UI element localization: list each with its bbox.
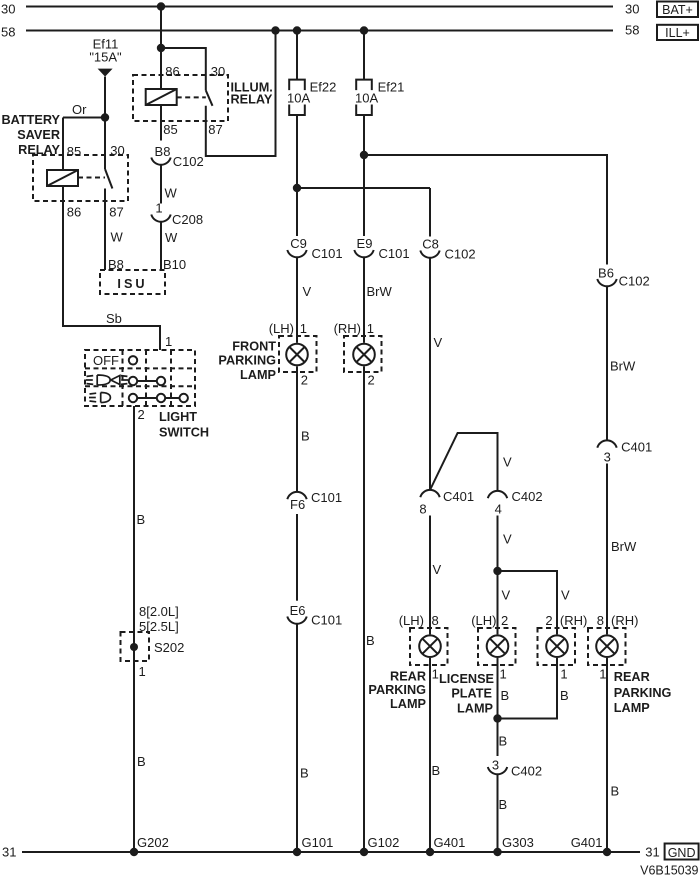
svg-text:V: V (503, 532, 512, 547)
svg-text:B: B (137, 512, 146, 527)
svg-text:1: 1 (300, 321, 307, 336)
svg-text:30: 30 (110, 143, 124, 158)
switch contacts row 1 (129, 356, 137, 364)
svg-text:SAVER: SAVER (17, 128, 60, 142)
svg-text:LAMP: LAMP (390, 697, 426, 711)
svg-text:85: 85 (67, 144, 81, 159)
connector C102 C8 (420, 247, 475, 262)
wire B8 to C208 (160, 165, 162, 204)
label V wire (303, 284, 312, 299)
wire bus30 to illum coil 86 (160, 7, 162, 90)
svg-text:2: 2 (301, 372, 308, 387)
svg-text:10A: 10A (355, 91, 378, 106)
svg-text:1: 1 (500, 667, 507, 682)
connector C402 pin 3 (488, 763, 542, 778)
svg-text:C101: C101 (312, 246, 343, 261)
node 30 label right (625, 2, 639, 17)
svg-text:ILL+: ILL+ (665, 26, 690, 40)
wire illum pin 87 to bus 58 (206, 31, 276, 157)
wire bus 30 BAT+ (26, 6, 613, 8)
lamp FRONT PARKING LAMP LH (279, 336, 317, 372)
pin 1 S202 (139, 664, 146, 679)
pin 2 front RH (368, 372, 375, 387)
svg-text:(RH): (RH) (611, 613, 638, 628)
svg-text:C102: C102 (173, 154, 204, 169)
svg-text:B8: B8 (155, 144, 171, 159)
svg-text:G303: G303 (502, 835, 534, 850)
svg-text:5[2.5L]: 5[2.5L] (139, 619, 179, 634)
wire illum coil 85 down (160, 106, 162, 141)
wire branch to C8 (297, 187, 430, 189)
label V wire (503, 532, 512, 547)
svg-text:1: 1 (367, 321, 374, 336)
svg-text:(RH): (RH) (560, 613, 587, 628)
svg-text:FRONT: FRONT (232, 340, 276, 354)
pin B6 label (598, 265, 614, 280)
svg-text:30: 30 (625, 2, 639, 17)
node 30 label left (1, 2, 15, 17)
svg-text:86: 86 (67, 205, 81, 220)
pin E6 label (290, 603, 306, 618)
svg-text:B: B (611, 784, 620, 799)
icon headlamp symbol (86, 375, 128, 385)
lamp LICENSE PLATE LAMP RH (538, 628, 576, 665)
label (LH) pin 8 (399, 613, 439, 628)
ground G101 (293, 835, 334, 856)
wire Ef11 to relay pin 30 (104, 77, 106, 169)
ground G401 right (571, 835, 612, 856)
label V wire (433, 562, 442, 577)
svg-text:C208: C208 (172, 212, 203, 227)
relay switch blade illum (206, 90, 213, 105)
node junction bus58 pin87 riser (271, 26, 279, 34)
pin 86 battery saver (67, 205, 81, 220)
splice S202 (121, 632, 185, 661)
fuse Ef11 15A (89, 36, 122, 76)
pin 1 license LH (500, 667, 507, 682)
svg-text:BAT+: BAT+ (662, 3, 693, 17)
svg-text:OFF: OFF (93, 353, 119, 368)
svg-text:B: B (499, 797, 508, 812)
wire lamp RH to G102, B (363, 366, 365, 852)
label REAR PARKING LAMP left (368, 670, 426, 711)
svg-text:V: V (503, 455, 512, 470)
svg-text:C102: C102 (619, 274, 650, 289)
svg-text:B: B (499, 734, 508, 749)
node junction license split (493, 567, 501, 575)
pin E9 label (357, 236, 373, 251)
svg-text:1: 1 (165, 334, 172, 349)
lamp LICENSE PLATE LAMP LH (478, 628, 516, 665)
svg-text:G401: G401 (571, 835, 603, 850)
svg-text:SWITCH: SWITCH (159, 426, 209, 440)
wire 8 C401 to rear lamp LH, V (429, 516, 431, 635)
svg-text:1: 1 (139, 664, 146, 679)
wire E9 to lamp, BrW (363, 257, 365, 343)
svg-text:BrW: BrW (611, 539, 637, 554)
connector C102 B6 (597, 274, 649, 289)
svg-text:2: 2 (368, 372, 375, 387)
svg-text:8: 8 (419, 502, 426, 517)
svg-text:BrW: BrW (367, 284, 393, 299)
label BrW wire (610, 359, 636, 374)
svg-text:2: 2 (501, 613, 508, 628)
svg-text:C9: C9 (290, 236, 307, 251)
svg-text:C401: C401 (621, 440, 652, 455)
svg-text:LAMP: LAMP (614, 701, 650, 715)
node junction branch pin30 (157, 44, 165, 52)
lamp REAR PARKING LAMP RH (588, 628, 626, 665)
svg-text:PARKING: PARKING (614, 686, 672, 700)
connector C401 pin 3 (597, 440, 652, 465)
label V wire (502, 588, 511, 603)
svg-text:3: 3 (492, 758, 499, 773)
svg-text:BrW: BrW (610, 359, 636, 374)
label (LH) pin 1 (269, 321, 307, 336)
label BrW wire (611, 539, 637, 554)
svg-text:(LH): (LH) (399, 613, 424, 628)
svg-text:58: 58 (625, 23, 639, 38)
svg-text:REAR: REAR (614, 670, 650, 684)
svg-text:G102: G102 (368, 835, 400, 850)
wire bus 31 GND (22, 851, 640, 853)
pin 30 battery saver (110, 143, 124, 158)
wire F6 to E6 (296, 514, 298, 601)
label 8 (RH) rear (597, 613, 639, 628)
connector C402 pin 4 (488, 489, 543, 517)
label Sb (106, 311, 122, 326)
label 2 (RH) license (545, 613, 587, 628)
svg-text:C101: C101 (379, 246, 410, 261)
svg-text:B: B (137, 754, 146, 769)
label V wire (561, 588, 570, 603)
svg-text:RELAY: RELAY (231, 92, 273, 106)
pin 1 rear RH (599, 667, 606, 682)
relay actuation dashed illum (177, 96, 206, 98)
wire lamp to F6, B (296, 366, 298, 492)
label BrW wire (367, 284, 393, 299)
svg-text:30: 30 (1, 2, 15, 17)
label (RH) pin 1 (334, 321, 374, 336)
svg-text:8: 8 (597, 613, 604, 628)
ground G202 (130, 835, 169, 856)
svg-text:87: 87 (109, 205, 123, 220)
svg-text:PLATE: PLATE (451, 687, 492, 701)
svg-text:C101: C101 (311, 613, 342, 628)
svg-text:(LH): (LH) (269, 321, 294, 336)
node 31 label right (645, 845, 659, 860)
svg-text:87: 87 (208, 122, 222, 137)
label OFF (93, 353, 119, 368)
svg-text:C101: C101 (311, 490, 342, 505)
connector C101 C9 (287, 246, 342, 261)
svg-text:C402: C402 (511, 763, 542, 778)
wire C208 to ISU B10 (160, 222, 162, 270)
label pin 1 light switch (165, 334, 172, 349)
label W wire (165, 186, 178, 201)
svg-text:86: 86 (165, 64, 179, 79)
label B wire (432, 763, 441, 778)
svg-text:B: B (560, 688, 569, 703)
label REAR PARKING LAMP right (614, 670, 672, 715)
svg-text:W: W (165, 230, 178, 245)
pin 1 rear LH (432, 667, 439, 682)
pin 3 C402 label (492, 758, 499, 773)
node ILL+ box (657, 25, 698, 40)
label B wire (366, 633, 375, 648)
svg-text:10A: 10A (287, 91, 310, 106)
label V6B15039 (640, 864, 698, 878)
label B wire (560, 688, 569, 703)
svg-text:B: B (366, 633, 375, 648)
svg-text:1: 1 (155, 201, 162, 216)
label pin 2 light switch (138, 407, 145, 422)
label LICENSE PLATE LAMP (439, 672, 494, 716)
svg-text:PARKING: PARKING (368, 683, 426, 697)
wire bus58 to Ef21 (363, 31, 365, 80)
pin 2 front LH (301, 372, 308, 387)
wire rear LH to G401, B (429, 658, 431, 852)
svg-text:LAMP: LAMP (240, 368, 276, 382)
svg-text:ISU: ISU (117, 277, 147, 291)
relay ILLUM. RELAY label (231, 81, 273, 107)
svg-text:B10: B10 (163, 257, 186, 272)
relay switch blade battery saver (105, 169, 112, 189)
node junction license join (493, 714, 501, 722)
label (LH) pin 2 (471, 613, 508, 628)
connector C101 E9 (354, 246, 409, 261)
label Or (72, 102, 87, 117)
wire branch to license RH (498, 571, 558, 634)
wire branch to B6 (364, 155, 607, 265)
svg-text:"15A": "15A" (89, 50, 122, 65)
wire C9 to lamp, V (296, 257, 298, 343)
svg-text:Sb: Sb (106, 311, 122, 326)
pin 85 battery saver (67, 144, 81, 159)
icon parking lamp symbol (89, 393, 110, 403)
svg-text:F6: F6 (290, 497, 305, 512)
svg-text:C102: C102 (445, 247, 476, 262)
wire bus58 to Ef22 (296, 31, 298, 80)
svg-text:Or: Or (72, 102, 87, 117)
wire 3 C401 to rear lamp RH, BrW (606, 464, 608, 635)
wire Sb coil86 to light switch (63, 185, 160, 350)
svg-text:PARKING: PARKING (218, 354, 276, 368)
svg-text:S202: S202 (154, 640, 184, 655)
svg-text:V: V (502, 588, 511, 603)
pin C9 label (290, 236, 307, 251)
node 31 label left (2, 845, 16, 860)
label B wire (300, 766, 309, 781)
label B wire (611, 784, 620, 799)
relay illum box (133, 75, 228, 121)
pin 1 C208 label (155, 201, 162, 216)
fuse Ef21 10A (355, 80, 404, 116)
svg-text:V: V (561, 588, 570, 603)
node 58 label left (1, 25, 15, 40)
svg-text:1: 1 (432, 667, 439, 682)
node junction bus58 Ef21 (360, 26, 368, 34)
wire license LH down (497, 658, 499, 756)
node BAT+ box (657, 2, 698, 18)
wire license RH join (498, 658, 558, 719)
label B wire (301, 429, 310, 444)
wire C8 to 8 C401, V (429, 258, 431, 490)
pin B8 ISU (108, 257, 124, 272)
svg-text:V: V (433, 562, 442, 577)
svg-text:REAR: REAR (390, 670, 426, 684)
node junction bus30 (157, 2, 165, 10)
wire diagonal branch to 4 C402 (430, 433, 498, 491)
relay coil battery saver (47, 170, 78, 186)
pin 86 illum (165, 64, 179, 79)
label B wire (499, 734, 508, 749)
svg-text:Ef22: Ef22 (310, 80, 337, 95)
svg-text:C401: C401 (443, 489, 474, 504)
ground G303 (493, 835, 534, 856)
wire 3 C402 to G303, B (497, 774, 499, 852)
wire B6 to 3 C401, BrW (606, 286, 608, 440)
svg-text:31: 31 (2, 845, 16, 860)
switch LIGHT SWITCH box (85, 350, 195, 406)
svg-text:8: 8 (432, 613, 439, 628)
svg-text:B: B (301, 429, 310, 444)
node junction Ef21 branch (360, 151, 368, 159)
wire light switch 2 to G202, B (133, 406, 135, 852)
svg-text:2: 2 (138, 407, 145, 422)
label 8[2.0L] 5[2.5L] (139, 604, 179, 634)
svg-text:31: 31 (645, 845, 659, 860)
svg-text:C8: C8 (422, 237, 439, 252)
svg-text:E6: E6 (290, 603, 306, 618)
label V wire (503, 455, 512, 470)
node junction Or/Ef11 (101, 113, 109, 121)
wire coil 85 feed (62, 118, 64, 171)
relay actuation dashed battery saver (78, 177, 105, 179)
label B wire (499, 797, 508, 812)
svg-text:B: B (501, 688, 510, 703)
switch contacts row 3 (129, 394, 188, 402)
label FRONT PARKING LAMP (218, 340, 276, 382)
svg-text:GND: GND (668, 846, 696, 860)
svg-text:V6B15039: V6B15039 (640, 864, 698, 878)
svg-text:1: 1 (560, 667, 567, 682)
svg-text:8[2.0L]: 8[2.0L] (139, 604, 179, 619)
svg-text:G401: G401 (434, 835, 466, 850)
label W wire (165, 230, 178, 245)
wire branch to illum pin 30 (161, 48, 206, 90)
svg-text:E9: E9 (357, 236, 373, 251)
pin B8 connector label (155, 144, 171, 159)
wire branch down to C8 (429, 188, 431, 237)
lamp REAR PARKING LAMP LH (410, 628, 448, 665)
node GND box (665, 844, 699, 861)
label LIGHT SWITCH (159, 410, 209, 440)
pin 1 license RH (560, 667, 567, 682)
lamp FRONT PARKING LAMP RH (344, 336, 382, 372)
wire E6 to G101, B (296, 624, 298, 852)
svg-text:B: B (300, 766, 309, 781)
svg-text:(RH): (RH) (334, 321, 361, 336)
svg-text:(LH): (LH) (471, 613, 496, 628)
relay BATTERY SAVER RELAY label (2, 113, 61, 157)
svg-text:V: V (303, 284, 312, 299)
svg-text:BATTERY: BATTERY (2, 113, 61, 127)
connector C102 B8 (151, 154, 203, 169)
svg-text:V: V (434, 335, 443, 350)
svg-text:B6: B6 (598, 265, 614, 280)
relay K? battery saver box (33, 155, 128, 201)
svg-text:85: 85 (163, 122, 177, 137)
svg-text:W: W (165, 186, 178, 201)
node 58 label right (625, 23, 639, 38)
svg-text:1: 1 (599, 667, 606, 682)
svg-text:LAMP: LAMP (457, 702, 493, 716)
svg-text:LIGHT: LIGHT (159, 410, 197, 424)
label B wire (137, 512, 146, 527)
svg-text:W: W (111, 230, 124, 245)
svg-text:30: 30 (211, 64, 225, 79)
label W wire (111, 230, 124, 245)
svg-text:LICENSE: LICENSE (439, 672, 494, 686)
connector C401 pin 8 (419, 489, 474, 517)
svg-text:58: 58 (1, 25, 15, 40)
pin 85 illum (163, 122, 177, 137)
svg-text:B: B (432, 763, 441, 778)
wire bus 58 ILL+ (26, 30, 613, 32)
switch contacts row 2 (129, 377, 165, 385)
svg-text:C402: C402 (512, 489, 543, 504)
svg-text:G101: G101 (302, 835, 334, 850)
svg-text:Ef21: Ef21 (378, 80, 405, 95)
svg-text:4: 4 (495, 502, 502, 517)
pin 87 illum (208, 122, 222, 137)
svg-text:3: 3 (604, 450, 611, 465)
pin B10 ISU (163, 257, 186, 272)
ground G102 (360, 835, 400, 856)
pin C8 label (422, 237, 439, 252)
wire Ef21 to E9 (363, 115, 365, 236)
fuse Ef22 10A (287, 80, 336, 116)
ground G401 left (426, 835, 466, 856)
svg-text:2: 2 (545, 613, 552, 628)
wire pin 87 to ISU B8 (104, 189, 106, 271)
ISU box (100, 270, 165, 294)
svg-text:G202: G202 (137, 835, 169, 850)
node junction Ef22 branch (293, 184, 301, 192)
connector C101 E6 (287, 613, 342, 628)
pin 30 illum (211, 64, 225, 79)
label B wire (501, 688, 510, 703)
pin 87 battery saver (109, 205, 123, 220)
wire Or branch (63, 117, 105, 119)
wire 4 C402 to license LH, V (497, 516, 499, 635)
node junction bus58 Ef22 (293, 26, 301, 34)
label V wire (434, 335, 443, 350)
wire Ef22 to C9 (296, 115, 298, 236)
relay coil illum (146, 89, 177, 105)
label B wire (137, 754, 146, 769)
wire rear RH to G401, B (606, 658, 608, 852)
connector C208 (151, 212, 203, 227)
connector C101 F6 (287, 490, 342, 512)
